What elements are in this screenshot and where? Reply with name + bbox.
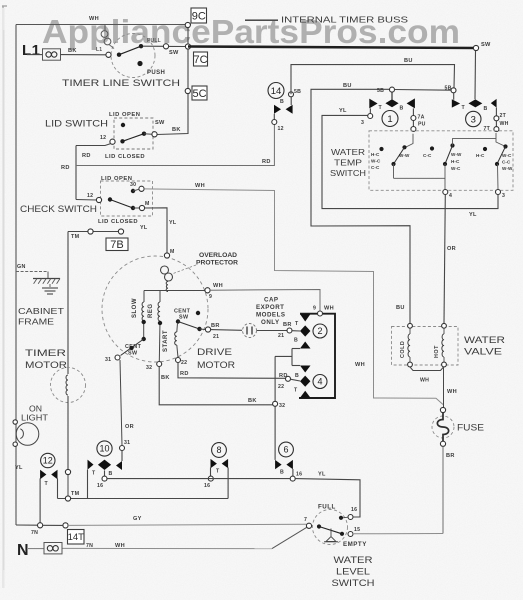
on light lamp	[16, 423, 39, 446]
svg-text:32: 32	[279, 403, 285, 409]
svg-text:EXPORT: EXPORT	[256, 304, 284, 311]
wire BU upper	[291, 65, 455, 95]
svg-text:L1: L1	[22, 42, 41, 59]
wire GY	[43, 524, 63, 526]
timer cam contact 8	[211, 459, 217, 468]
svg-text:SW: SW	[169, 50, 179, 56]
connector GY	[63, 523, 68, 528]
pressure bell	[330, 529, 332, 537]
terminal 16 contact 8	[208, 476, 213, 481]
svg-text:C-C: C-C	[423, 153, 432, 158]
svg-text:SW: SW	[179, 315, 189, 321]
svg-text:H-C: H-C	[476, 153, 485, 158]
wire 6 right leg	[292, 469, 294, 476]
svg-text:CAP: CAP	[264, 297, 279, 304]
svg-text:BK: BK	[248, 398, 257, 404]
terminal cold bottom	[408, 362, 413, 367]
svg-text:OVERLOAD: OVERLOAD	[199, 252, 237, 259]
wire 8 left leg	[210, 468, 212, 477]
wire N diagonal	[272, 527, 307, 548]
svg-text:RD: RD	[180, 371, 189, 377]
svg-text:W-W: W-W	[451, 152, 462, 157]
svg-text:WATER: WATER	[464, 335, 505, 345]
wire OR temp to valve	[444, 195, 445, 324]
svg-text:LEVEL: LEVEL	[336, 567, 370, 577]
scan edge artifact	[2, 8, 5, 588]
wire RD lid to left	[76, 144, 111, 146]
svg-text:32: 32	[146, 365, 152, 371]
svg-text:3: 3	[361, 120, 364, 126]
terminal 3 contact 1	[368, 114, 373, 119]
svg-text:START: START	[163, 330, 169, 352]
svg-text:B: B	[295, 373, 299, 379]
circled 2	[313, 324, 327, 338]
timer line switch plunger	[101, 31, 108, 38]
wire BR	[442, 446, 444, 533]
circled 8	[212, 443, 227, 458]
svg-text:5B: 5B	[294, 89, 301, 95]
svg-text:REG: REG	[148, 303, 154, 318]
cam follower top (contact 2 T)	[300, 314, 311, 322]
svg-text:LID CLOSED: LID CLOSED	[98, 219, 138, 225]
svg-text:SWITCH: SWITCH	[330, 168, 366, 178]
box 9C	[191, 8, 207, 23]
svg-text:BK: BK	[68, 48, 77, 54]
svg-text:WATER: WATER	[331, 147, 365, 157]
svg-text:PROTECTOR: PROTECTOR	[196, 260, 238, 267]
overload protector	[161, 266, 169, 274]
svg-text:YL: YL	[15, 465, 23, 471]
circled 6	[279, 442, 294, 457]
svg-text:16: 16	[351, 507, 357, 513]
svg-text:7C: 7C	[193, 54, 207, 66]
wire BK plug to timer line switch	[61, 54, 107, 56]
cam follower mid up (contact 2 B)	[300, 342, 311, 349]
terminal fuse top	[440, 407, 445, 412]
start node	[176, 319, 180, 323]
wire 8 right leg	[227, 468, 229, 499]
svg-text:SWITCH: SWITCH	[332, 578, 375, 588]
wire SW to bus	[169, 45, 186, 47]
node bus SW right	[473, 45, 478, 50]
temp switch blade 4	[483, 147, 487, 151]
svg-text:CHECK SWITCH: CHECK SWITCH	[20, 204, 97, 214]
connector TM lower b	[65, 496, 70, 501]
wire contact3 right leg	[495, 108, 497, 116]
wire slow to cent sw	[143, 321, 145, 339]
wire WH drop to timer line switch	[104, 25, 106, 31]
svg-text:CABINET: CABINET	[18, 306, 65, 316]
svg-text:RD: RD	[262, 159, 271, 165]
svg-text:YL: YL	[318, 472, 326, 478]
svg-text:PULL: PULL	[147, 38, 161, 44]
svg-text:16: 16	[97, 483, 103, 489]
svg-text:SW: SW	[155, 120, 165, 126]
svg-text:14T: 14T	[68, 532, 85, 543]
terminal 7N	[38, 523, 43, 528]
svg-text:MOTOR: MOTOR	[25, 360, 67, 370]
terminal 2T	[494, 116, 499, 121]
svg-text:7: 7	[304, 517, 307, 523]
svg-text:W-W: W-W	[502, 166, 513, 171]
wire 9 to contact 2 box	[210, 290, 320, 312]
wire 12 left leg	[39, 478, 41, 522]
leader overload	[172, 265, 196, 274]
svg-text:LID CLOSED: LID CLOSED	[105, 154, 145, 160]
wire OR cent sw to 31	[120, 360, 122, 446]
svg-text:ON: ON	[29, 405, 42, 414]
box 7C	[194, 52, 208, 66]
terminal 31 contact 10	[120, 446, 125, 451]
wire frame to 7N	[16, 524, 38, 526]
wire SW down to contact 3	[474, 51, 477, 100]
svg-text:BU: BU	[404, 58, 413, 64]
wire 14 left leg	[273, 114, 275, 120]
svg-text:31: 31	[105, 357, 111, 363]
svg-text:1: 1	[387, 114, 392, 125]
svg-text:OR: OR	[447, 246, 456, 252]
wire start to 22	[177, 345, 178, 358]
wire 12 right leg	[57, 478, 59, 498]
svg-text:FRAME: FRAME	[18, 317, 54, 327]
svg-text:GY: GY	[133, 516, 142, 522]
label INTERNAL TIMER BUSS	[245, 19, 278, 21]
terminal BR motor	[205, 327, 210, 332]
contact PUSH	[137, 61, 142, 66]
svg-text:2T: 2T	[500, 113, 507, 119]
svg-text:9: 9	[313, 306, 316, 312]
wire TM row	[68, 231, 119, 233]
contact arm water level	[317, 524, 321, 528]
svg-text:YL: YL	[169, 220, 177, 226]
terminal 22 contact 4	[286, 376, 291, 381]
terminal SW lid switch	[152, 132, 157, 137]
terminal 30 check switch	[139, 186, 144, 191]
timer cam contact 3	[453, 92, 455, 99]
svg-text:WH: WH	[355, 362, 365, 368]
svg-text:15: 15	[354, 527, 360, 533]
svg-text:M: M	[145, 201, 150, 207]
reg winding	[159, 291, 161, 303]
terminal 7A	[411, 116, 416, 121]
svg-text:FULL: FULL	[318, 504, 336, 511]
svg-text:B: B	[294, 338, 298, 344]
svg-text:H-C: H-C	[451, 159, 460, 164]
circled 1	[382, 111, 398, 127]
svg-text:B: B	[109, 471, 113, 477]
svg-text:B: B	[484, 106, 488, 112]
svg-text:BR: BR	[283, 322, 292, 328]
svg-text:EMPTY: EMPTY	[343, 541, 367, 548]
wire contact1 right leg	[412, 108, 414, 115]
terminal 16 contact 6	[290, 476, 295, 481]
svg-text:TIMER: TIMER	[25, 348, 66, 358]
svg-text:WH: WH	[213, 283, 223, 289]
terminal 9 motor	[205, 288, 210, 293]
wire BU lower	[311, 89, 410, 323]
lid switch enclosure	[114, 118, 153, 149]
wire 7A to PU	[412, 121, 414, 127]
svg-text:TIMER LINE SWITCH: TIMER LINE SWITCH	[62, 78, 180, 88]
svg-text:RD: RD	[61, 165, 70, 171]
svg-text:21: 21	[213, 334, 219, 340]
wire WH top frame	[16, 24, 191, 26]
svg-text:LID OPEN: LID OPEN	[101, 176, 132, 182]
connector plug L1	[43, 49, 61, 60]
wire 31 down	[121, 451, 123, 462]
water temp switch enclosure	[369, 131, 513, 191]
svg-text:COLD: COLD	[400, 341, 406, 358]
node 5C	[185, 88, 190, 93]
cam follower mid down (contact 4 B)	[300, 366, 311, 373]
svg-text:6: 6	[283, 445, 288, 455]
node under 9C	[185, 22, 190, 27]
wire capacitor to 21	[257, 330, 287, 332]
wire motor top rail	[144, 290, 205, 292]
svg-text:7B: 7B	[110, 239, 123, 251]
svg-text:N: N	[17, 542, 29, 559]
svg-text:RD: RD	[82, 153, 91, 159]
terminal 21 contact 2	[287, 328, 292, 333]
svg-text:TM: TM	[71, 234, 80, 240]
wire RD to check switch	[76, 199, 97, 202]
svg-text:16: 16	[296, 472, 302, 478]
svg-text:BR: BR	[211, 323, 220, 329]
svg-text:22: 22	[278, 384, 284, 390]
connector PU on switch box	[411, 127, 416, 132]
svg-text:30: 30	[130, 182, 136, 188]
wire L1 to plug	[27, 54, 43, 56]
svg-text:MODELS: MODELS	[256, 312, 285, 319]
svg-text:31: 31	[124, 440, 130, 446]
svg-text:22: 22	[181, 360, 187, 366]
svg-text:LID OPEN: LID OPEN	[109, 112, 140, 118]
svg-text:WATER: WATER	[334, 555, 373, 565]
capacitor C1 export	[243, 324, 257, 338]
wire to SW terminal	[143, 45, 164, 47]
svg-text:9C: 9C	[192, 10, 206, 22]
svg-text:12: 12	[43, 456, 53, 466]
terminal hot bottom	[442, 362, 447, 367]
timer cam contact 12	[40, 470, 46, 479]
wire TM bus	[58, 498, 229, 500]
check switch enclosure	[101, 181, 153, 216]
drive motor body	[102, 256, 208, 362]
svg-text:BK: BK	[172, 127, 181, 133]
svg-text:W-C: W-C	[451, 166, 461, 171]
node 32 on leg	[273, 401, 278, 406]
terminal L1 of switch	[106, 52, 111, 57]
temp switch blade 1	[379, 147, 383, 151]
svg-text:YL: YL	[339, 108, 347, 114]
svg-text:5B: 5B	[377, 88, 384, 94]
terminal M check switch	[139, 205, 144, 210]
water level switch body	[313, 510, 348, 545]
svg-text:B: B	[280, 99, 284, 105]
svg-text:BU: BU	[343, 83, 352, 89]
slow winding	[143, 291, 145, 303]
temp switch blade 3	[450, 143, 454, 147]
svg-text:W-C: W-C	[502, 153, 512, 158]
contact arm lid switch	[120, 139, 124, 143]
temp switch blade 2	[430, 146, 434, 150]
wire column to lid switch	[157, 94, 188, 135]
svg-text:W-C: W-C	[371, 159, 381, 164]
terminal SW	[163, 44, 168, 49]
wire YL 16 to full	[295, 479, 360, 517]
internal timer buss (heavy)	[188, 47, 476, 49]
wire timer motor vertical lower	[67, 396, 69, 470]
circled 14	[268, 83, 284, 99]
terminal 31 motor	[115, 355, 120, 360]
wire RD down	[75, 146, 77, 200]
box 7B	[106, 238, 128, 251]
terminal 5B contact 14	[289, 92, 294, 97]
fuse body	[432, 416, 454, 438]
svg-text:LID SWITCH: LID SWITCH	[45, 119, 108, 129]
svg-text:7A: 7A	[418, 115, 425, 121]
svg-text:SLOW: SLOW	[132, 298, 138, 318]
wire 9C column mid	[187, 49, 189, 88]
corner scan mark	[2, 6, 7, 13]
node 9 on box	[318, 311, 323, 316]
svg-text:BR: BR	[446, 453, 455, 459]
svg-text:PU: PU	[418, 122, 426, 128]
wire 6 left leg (32 net)	[274, 356, 276, 460]
wire RD start to contact 4	[178, 363, 286, 379]
timer line switch body	[111, 34, 155, 78]
wire valve common	[410, 367, 444, 371]
svg-text:DRIVE: DRIVE	[197, 347, 232, 357]
node bus left	[185, 44, 190, 49]
wire RD branch to contact 14	[76, 125, 274, 166]
terminal 4 temp switch	[443, 190, 448, 195]
svg-text:2: 2	[317, 326, 322, 336]
svg-text:WH: WH	[420, 378, 429, 384]
hot solenoid	[443, 328, 445, 334]
wire reg to 32	[158, 321, 161, 362]
cabinet frame ground symbol	[16, 271, 48, 273]
terminal fuse bottom	[440, 441, 445, 446]
terminal 7 water level	[306, 523, 311, 528]
contact arm cent sw lower	[121, 339, 144, 356]
terminal 32 motor	[157, 362, 162, 367]
circled 4	[313, 375, 327, 389]
svg-text:GN: GN	[17, 264, 26, 270]
connector TM right	[118, 229, 123, 234]
svg-text:WH: WH	[195, 183, 205, 189]
terminal 5B contact 1	[390, 87, 395, 92]
contact 2-4 gang box	[299, 314, 335, 398]
timer cam contact 2	[292, 330, 300, 332]
svg-text:7N: 7N	[31, 530, 38, 536]
svg-text:12: 12	[100, 135, 106, 141]
svg-text:PUSH: PUSH	[147, 70, 165, 76]
svg-text:L1: L1	[96, 47, 102, 53]
svg-text:SW: SW	[128, 351, 138, 357]
svg-text:TEMP: TEMP	[334, 158, 362, 168]
cam follower bottom (contact 4 T)	[300, 391, 311, 398]
wire YL check M to motor	[145, 208, 167, 253]
scan noise	[0, 0, 1, 1]
wire 10 left leg	[87, 470, 89, 499]
terminal 12 contact 14	[272, 120, 277, 125]
wire 14 right leg	[290, 97, 292, 105]
wire 16 bus	[107, 478, 290, 480]
circled 3	[466, 111, 481, 126]
circled 12	[41, 453, 55, 467]
wire WH left frame	[15, 25, 17, 526]
svg-text:M: M	[170, 249, 175, 255]
start winding	[176, 323, 179, 332]
wire WH check switch	[144, 189, 443, 405]
svg-text:YL: YL	[469, 212, 477, 218]
svg-text:WH: WH	[324, 306, 334, 312]
terminal 16 contact 10	[102, 476, 107, 481]
svg-text:C-C: C-C	[371, 165, 380, 170]
box 5C	[192, 86, 207, 100]
svg-text:10: 10	[99, 444, 109, 454]
terminal empty	[348, 532, 353, 537]
svg-text:HOT: HOT	[434, 345, 440, 358]
wire BR to capacitor	[211, 329, 242, 332]
svg-text:3: 3	[471, 114, 476, 125]
terminal on light bottom	[13, 442, 17, 446]
cold solenoid	[409, 328, 411, 334]
wire 10 stub	[104, 470, 106, 476]
svg-text:SW: SW	[481, 42, 491, 48]
timer cam contact 14	[274, 105, 281, 114]
svg-text:ONLY: ONLY	[261, 319, 280, 326]
terminal cold top	[408, 323, 413, 328]
svg-text:VALVE: VALVE	[464, 347, 502, 357]
svg-text:16: 16	[204, 483, 210, 489]
wire timer motor vertical upper	[67, 232, 69, 375]
svg-text:12: 12	[278, 126, 284, 132]
terminal 5B contact 3	[451, 88, 456, 93]
svg-text:YL: YL	[140, 225, 148, 231]
wire N left	[28, 548, 44, 550]
contact arm check switch	[108, 197, 112, 201]
terminal 3 temp switch	[496, 190, 501, 195]
water valve enclosure	[392, 327, 459, 366]
wire TM connector link	[67, 475, 69, 497]
terminal 12 check switch	[96, 197, 101, 202]
svg-text:OR: OR	[125, 424, 134, 430]
timer cam contact 1	[369, 99, 377, 109]
svg-text:9: 9	[209, 294, 212, 300]
terminal full	[348, 515, 353, 520]
wire BK 32	[159, 367, 272, 405]
wire 5B link	[395, 89, 452, 92]
temp switch blade 5	[496, 133, 506, 147]
timer cam contact 10	[88, 460, 94, 470]
wire 2T to 7T	[495, 121, 497, 127]
svg-text:WH: WH	[89, 16, 99, 22]
terminal 12 lid switch	[110, 139, 115, 144]
timer motor coil	[66, 375, 68, 395]
timer cam contact 6	[275, 460, 282, 469]
wire YL contact1 to temp switch	[322, 115, 498, 208]
terminal 22 motor	[176, 358, 181, 363]
terminal M motor	[164, 253, 169, 258]
svg-text:FUSE: FUSE	[457, 423, 484, 433]
contact arm cent sw upper	[178, 322, 200, 330]
contact arm timer line switch	[117, 53, 121, 57]
svg-text:LIGHT: LIGHT	[21, 414, 48, 423]
wire N to water level	[63, 547, 273, 549]
svg-text:4: 4	[317, 377, 322, 387]
